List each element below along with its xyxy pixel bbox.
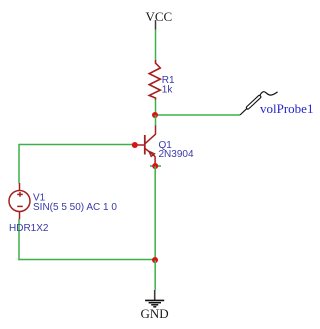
resistor R1 [149, 60, 175, 100]
wire bottom horizontal [18, 259, 155, 261]
svg-text:1k: 1k [162, 85, 174, 96]
wire base to V1 (horizontal) [19, 144, 135, 146]
junction node emitter [150, 163, 161, 169]
power flag VCC [146, 9, 173, 30]
junction node base [132, 142, 138, 148]
svg-text:2N3904: 2N3904 [159, 149, 194, 160]
wire node A to probe [155, 114, 240, 116]
junction node bottom [152, 257, 158, 263]
svg-text:VCC: VCC [146, 9, 173, 24]
junction node A [152, 112, 158, 118]
ground [141, 290, 169, 321]
source V1 SIN [9, 183, 117, 220]
transistor Q1 2N3904 [135, 126, 194, 167]
wire VCC to R1 [155, 30, 157, 61]
svg-text:GND: GND [141, 306, 169, 321]
wire left vertical down to V1 [18, 144, 20, 184]
wire R1 to node A [155, 100, 157, 116]
svg-text:volProbe1: volProbe1 [260, 101, 313, 116]
wire V1 bottom down [18, 219, 20, 260]
svg-text:SIN(5 5 50) AC 1 0: SIN(5 5 50) AC 1 0 [33, 202, 117, 213]
wire node A to Q1 collector [155, 115, 157, 126]
wire emitter down to bottom rail [154, 166, 156, 260]
voltage probe volProbe1 [240, 92, 313, 116]
svg-text:HDR1X2: HDR1X2 [9, 223, 49, 234]
wire bottom rail to ground [154, 260, 156, 290]
